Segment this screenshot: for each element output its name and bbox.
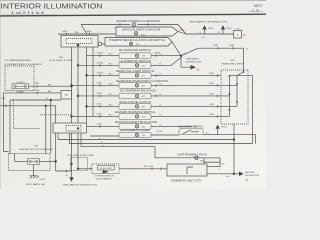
svg-text:INSTRUMENT PACK: INSTRUMENT PACK [178,153,208,157]
node 30B a [71,163,73,165]
diode unit inner box [98,165,115,170]
svg-text:50B: 50B [231,60,235,62]
connector tick dimmer2 [160,168,162,171]
svg-text:C831: C831 [34,83,40,85]
wire w3 [10,100,61,154]
bus vertical 1 [71,47,73,123]
wire code RO row9 [109,104,113,106]
node circle row3 [98,42,102,46]
lighting switch label [94,176,114,181]
connector tick w4 [5,105,7,108]
joint nodes [229,71,245,111]
svg-text:COMPARTMENT FUSEBOX: COMPARTMENT FUSEBOX [4,63,43,66]
instrument pack label [178,153,208,157]
connector tick diode in [89,168,91,171]
solder joint dashed inner [66,126,81,132]
passenger fusebox labels [4,59,43,66]
joint vertical 1 [229,75,231,116]
wire code RO row7 [109,83,113,85]
svg-text:T1 PASSENGER: T1 PASSENGER [4,59,32,62]
diode symbol [103,170,107,173]
bulb cigarette [135,125,145,129]
node row7 bus [71,85,73,87]
node row9 bus [86,106,88,108]
connector C309 [97,82,103,86]
wire code RO row5 [109,63,113,65]
bulb heater control [132,23,136,27]
connector 310 [136,44,140,46]
bus vertical 2 [77,47,79,123]
connector C407 [97,93,103,97]
rear fog switch box [119,73,151,79]
svg-text:GLOVEBOX SWITCH: GLOVEBOX SWITCH [178,124,203,128]
svg-text:C0585: C0585 [97,53,104,55]
title INTERIOR ILLUMINATION [1,1,103,10]
see feed distribution text [245,172,260,177]
connector C084 [86,31,92,35]
svg-text:30B: 30B [59,57,63,59]
wire code RO row6 [109,73,113,75]
svg-text:C002: C002 [148,166,154,168]
instrument connector block 2 [204,162,220,166]
drop from w3 [50,100,52,154]
svg-text:C441: C441 [97,103,103,105]
connector tick row6 right [155,74,157,77]
svg-text:C407: C407 [97,93,103,95]
earth drop row4 [181,56,191,67]
dimmer unit label [171,180,202,183]
svg-text:C0553: C0553 [97,72,104,74]
earth symbol E100 [30,176,46,181]
joint entry ticks [217,74,219,118]
solder joint 30B top dashed [66,39,92,44]
rh window switch label [119,48,151,52]
dimmer symbol [187,167,193,174]
connector tick C754 [179,30,185,32]
fuse rating label [16,91,24,94]
subtitle sheet reference [11,11,44,15]
glovebox switch symbol [183,130,199,134]
svg-text:OIL TEMPERATURE GAUGE: OIL TEMPERATURE GAUGE [120,89,156,93]
svg-text:SEE EARTH: SEE EARTH [187,58,200,61]
long wire A [58,124,234,174]
svg-text:SOLDER JOINT: SOLDER JOINT [49,60,74,62]
wire row6 [87,74,222,76]
heated rear window switch label [116,79,168,83]
svg-text:C084: C084 [229,45,235,47]
wire riser into underhood box [15,154,28,162]
bus vertical 3 [86,47,88,123]
rear fog lamp switch label [116,69,154,73]
svg-text:RO: RO [109,114,113,116]
label 4 [219,169,221,171]
svg-text:RG: RG [144,166,148,168]
wire code RO row4 [109,54,113,56]
connector C002 dimmer [148,166,154,170]
wire diode to dimmer [119,168,167,170]
joint top link [230,74,253,76]
solder joint 30B bottom dashed [71,158,88,171]
cigarette lighter label [115,120,158,124]
aircon switch label [122,28,160,32]
drop from w4 [45,106,47,154]
node row5 bus [77,65,79,67]
svg-text:MG F: MG F [254,4,262,8]
bulb instrument pack [195,156,199,160]
distribution box lower left [53,123,87,133]
glovebox lamp box [119,132,151,137]
connector C082 [213,45,219,49]
connector tick row8 right [155,95,157,98]
svg-text:42 GY: 42 GY [157,131,163,133]
heated rear window box [119,83,151,89]
long wire B [70,75,253,143]
svg-text:(SUB DIMMER): (SUB DIMMER) [96,178,112,180]
paper background [0,0,266,189]
50B solder joint label [222,60,245,66]
see earth distribution top text [189,20,228,23]
wire row4 [87,55,182,57]
wire row11 [87,125,194,127]
connector tick solder in [65,170,67,173]
node w3 drop [50,99,52,101]
wire row8 [78,95,221,97]
scan left edge [0,0,2,189]
earth arrow right mid [191,65,197,70]
svg-text:C083: C083 [62,31,68,33]
svg-text:HEADER JOINT: HEADER JOINT [222,63,245,66]
demist switch label [109,38,165,42]
connector C754 [141,35,145,37]
bulb heated rear window [135,84,145,88]
joint entry labels [209,73,215,116]
svg-text:DIMMER UNIT 279: DIMMER UNIT 279 [171,180,202,183]
node 30B b [77,168,79,170]
svg-text:RG: RG [48,91,52,93]
wire fuse output [29,85,72,87]
analogue clock label [119,100,151,104]
rh window switch box [119,53,151,59]
label block right of switch [157,131,208,135]
bulb demist [130,42,133,45]
junction block label [64,95,68,97]
wire row2 main feed [58,32,234,35]
svg-text:a0.5: a0.5 [226,176,230,178]
svg-text:REAR FOG LAMP SWITCH: REAR FOG LAMP SWITCH [116,69,154,73]
fuse 9 label [17,82,25,84]
svg-text:SEE EARTH DISTRIBUTION: SEE EARTH DISTRIBUTION [189,20,228,23]
oil temp gauge box [119,93,151,99]
underhood fusebox label [19,145,54,150]
node row6 bus [86,75,88,77]
wire code RO row8 [109,94,113,96]
bus vertical 4 [92,47,94,116]
svg-text:P/DEMIST/RECIRCULATION AIR SWI: P/DEMIST/RECIRCULATION AIR SWITCH [109,38,165,42]
svg-text:75B: 75B [34,145,38,147]
bulb clock [135,105,145,109]
oil temperature gauge label [120,89,156,93]
svg-text:RO: RO [109,83,113,85]
demist recirculation switch box [105,38,172,47]
see earth distribution text mid [186,58,202,64]
bulb glovebox [135,133,145,137]
joint 30B internals [72,133,79,171]
joint vertical 2 [236,75,238,106]
svg-text:HEATER CONTROL ILLUMINATION: HEATER CONTROL ILLUMINATION [116,19,160,23]
wire underhood fuse out [40,161,72,171]
earth arrow up E302 [200,25,214,39]
connector D084 [229,45,235,49]
svg-text:RG: RG [48,84,52,86]
dashed link wire [40,114,72,116]
svg-text:HAZARD WARNING SWITCH: HAZARD WARNING SWITCH [115,110,155,114]
svg-text:12 . 99: 12 . 99 [252,10,260,13]
label B row11 [195,127,197,129]
diode unit dashed box [92,164,119,174]
wire code A w3 [46,97,48,100]
junction block left [61,91,72,100]
svg-text:INTERIOR ILLUMINATION: INTERIOR ILLUMINATION [1,1,103,10]
svg-text:GLOVEBOX LAMP: GLOVEBOX LAMP [120,128,150,132]
earth arrow up E300 [218,25,232,34]
connector C080 [114,23,120,29]
node in distribution box [77,127,79,129]
30B solder joint label [49,57,74,62]
svg-text:ANALOGUE CLOCK: ANALOGUE CLOCK [119,100,151,104]
instrument connector block 1 [204,158,220,162]
connector C0553 [97,72,104,76]
wire row10 [72,115,222,117]
wire row3 to earth node [172,42,181,56]
node w4 drop [45,105,47,107]
node row10 bus [71,116,73,118]
bulb rear fog [135,74,145,78]
svg-text:RO: RO [109,63,113,65]
node junction row4 [180,55,182,57]
svg-text:UNDER HOOD FUSEBOX: UNDER HOOD FUSEBOX [19,149,54,151]
svg-text:DIODE UNIT: DIODE UNIT [100,168,113,170]
header rule [0,14,266,16]
svg-text:RO: RO [109,94,113,96]
wire row3 [87,43,105,45]
connector C830 [34,90,40,94]
long wire C [81,133,204,158]
wire joint to diode [78,168,92,170]
connector C083 [62,31,68,35]
wire code RG dimmer [144,166,148,168]
svg-text:E304: E304 [222,127,228,129]
passenger fusebox dashed [5,66,34,91]
label C208 [1,98,7,100]
svg-text:FUSE 9: FUSE 9 [17,82,25,84]
svg-text:SEE EARTH DISTRIBUTION: SEE EARTH DISTRIBUTION [63,184,97,187]
label a1 [184,53,188,55]
wire row12 [90,135,256,144]
wire w4 [0,106,56,162]
node line A join [233,139,235,141]
dashed link wire 2 [14,128,40,130]
svg-text:C830: C830 [34,90,40,92]
bulb oil temp [135,94,145,98]
hazard switch box [119,114,151,120]
underhood fuse symbol [28,159,40,165]
page id MG F [252,4,263,13]
svg-text:LIGHTING SWITCH: LIGHTING SWITCH [94,176,114,178]
fuse 9 symbol [12,84,29,89]
lh window switch box [119,63,151,69]
feed arrow right [239,172,244,177]
svg-text:a2 9: a2 9 [202,37,206,39]
svg-text:RH WINDOW SWITCH: RH WINDOW SWITCH [119,48,151,52]
dashed boundary vertical [13,99,15,129]
label B mid [198,70,200,72]
svg-text:RO: RO [109,104,113,106]
glovebox switch box [179,129,203,135]
bulb rh window [135,54,145,58]
svg-text:C106: C106 [97,123,103,125]
see earth distribution bottom text [63,184,97,187]
svg-text:E300: E300 [227,28,233,30]
wire dimmer out [207,173,239,175]
node dimmer out [233,173,235,175]
svg-text:C0584: C0584 [97,62,104,64]
connector C0585 [97,53,104,57]
page number underline [249,10,264,12]
node in bus box [77,44,79,46]
svg-text:C084: C084 [86,31,92,33]
bus connector box [61,35,98,47]
earth drop from fuse [33,165,35,176]
wire code RG w2 [48,91,52,93]
joint entry wires [221,70,244,116]
wire to upper connectors [181,48,244,70]
svg-text:C309: C309 [97,82,103,84]
underhood fusebox dashed [9,154,51,171]
dimmer unit box [167,164,207,176]
earth box top right [234,28,246,38]
wire w2 [3,93,61,152]
connector C106 [97,123,103,127]
node fuse feed bus [71,85,73,87]
svg-text:RG: RG [75,32,79,34]
label node a05 [226,176,230,178]
earth arrow up glovebox [216,125,228,135]
bulb lh window [135,64,145,68]
aircon switch box [116,27,178,36]
svg-text:RO: RO [109,54,113,56]
svg-text:C504: C504 [97,113,103,115]
label B bottom right [246,180,248,182]
svg-text:RADIO/CASSETTE PLAYER: RADIO/CASSETTE PLAYER [115,120,158,124]
svg-text:SEE FEED: SEE FEED [245,172,255,174]
glovebox lamp label [120,128,150,132]
connector C504 [97,113,103,117]
svg-text:E302: E302 [208,28,214,30]
svg-text:C082: C082 [213,45,219,47]
wire code RO row10 [109,114,113,116]
svg-text:DISTRIBUTION: DISTRIBUTION [186,61,202,63]
hazard warning switch label [115,110,155,114]
solder joint 30B bottom label [68,155,95,157]
bulb aircon [134,32,137,35]
connector tick row7 right [155,84,157,87]
connector C441 [97,103,103,107]
svg-text:DISTRIBUTION: DISTRIBUTION [245,175,260,177]
heater control illumination label [116,19,160,23]
node row8 bus [77,95,79,97]
wire row7 [72,84,222,86]
wire row5 [78,56,181,66]
wire row1 heater feed [81,25,186,35]
wire row9 [87,105,222,107]
svg-text:E100: E100 [40,179,46,181]
long line code labels [99,137,104,147]
earth arrow down [66,171,74,182]
svg-text:RO: RO [109,73,113,75]
glovebox switch label [178,124,203,128]
label R6 [222,163,226,165]
analogue clock box [119,104,151,110]
svg-text:LH WINDOW SWITCH: LH WINDOW SWITCH [119,59,151,63]
earth wire codes right of boxes [160,54,162,127]
bulb hazard [135,115,145,119]
50B solder joint dashed box [221,70,248,124]
lh window switch label [119,59,151,63]
label B top right [247,49,249,51]
wire code RG [75,32,79,34]
diode unit label [100,168,113,170]
cigarette lighter box [119,124,151,130]
connector C0584 [97,62,104,66]
wire code RG w1 [48,84,52,86]
svg-text:a 30.5: a 30.5 [235,28,240,30]
node underhood out [55,161,57,163]
svg-text:AIRCON SWITCH/KNOB: AIRCON SWITCH/KNOB [122,28,160,32]
connector C081 [148,23,156,29]
scan top edge [0,0,266,1]
svg-text:BODY EARTH LHD: BODY EARTH LHD [26,183,46,186]
svg-text:HEATED REAR WINDOW SWITCH ILLU: HEATED REAR WINDOW SWITCH ILLUMINATION [116,79,168,83]
connector tick row4 right [154,53,161,57]
subtitle underline [1,14,57,16]
connector C831 [34,83,40,87]
earth text bottom left [26,183,46,186]
svg-text:1 of 2 f 1 a 4: 1 of 2 f 1 a 4 [11,11,44,15]
connector C230 [200,160,204,162]
